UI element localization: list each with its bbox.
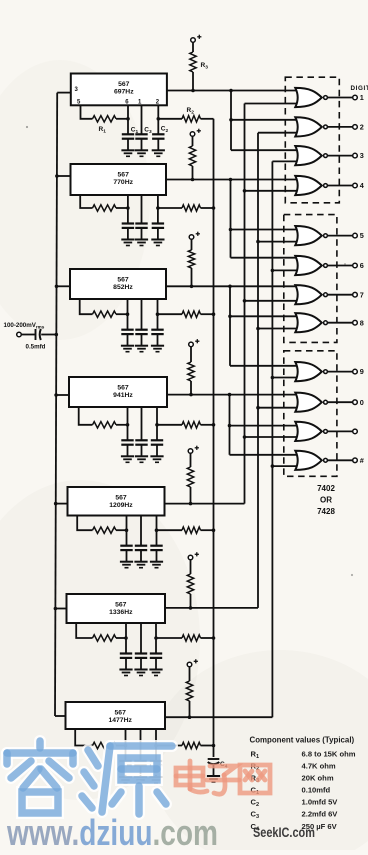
nor gate G7 — [295, 285, 322, 304]
supply + pullup resistor stage 1 — [191, 38, 196, 43]
wire R1 to pin 6 stage 6 — [116, 637, 126, 639]
input terminal — [17, 332, 22, 337]
output terminal digit 2 — [353, 125, 358, 130]
wire pin 2 stub stage 1 — [157, 105, 159, 119]
output terminal digit 7 — [353, 292, 358, 297]
wire gate G4 output to terminal — [327, 185, 352, 187]
wire pin 5 stub stage 5 — [77, 516, 92, 531]
wire: 1477Hz tap to gate input — [272, 269, 296, 271]
tone decoder IC U6 567 1336Hz — [67, 594, 166, 623]
resistor R1 timing stage 1 — [93, 116, 117, 122]
capacitor C3 pin1 stage 1 with ground — [141, 105, 143, 134]
resistor 4.7K pin2 feed stage 7 — [156, 745, 182, 747]
svg-text:#: # — [360, 456, 364, 465]
wire: 1336Hz top tap to gate input — [258, 132, 297, 134]
wire pin 2 stub stage 5 — [156, 516, 158, 531]
capacitor C1 timing stage 7 with ground — [125, 746, 127, 762]
wire: input signal bus to pin 3 of all 567s — [55, 93, 57, 716]
nor gate G2 — [295, 117, 322, 136]
wire gate G12 output to terminal — [327, 459, 352, 461]
output terminal digit * — [353, 429, 358, 434]
wire: 852Hz end tap to gate input — [230, 365, 297, 367]
wire pin 3 of U2 567 770Hz — [57, 175, 71, 177]
nor gate G1 — [295, 88, 322, 107]
resistor R1 timing stage 2 — [93, 205, 117, 211]
wire: 941Hz tap to gate input — [230, 425, 297, 427]
wire: 1336Hz tap to gate input — [258, 407, 297, 409]
capacitor C2 pin2 stage 5 with ground — [156, 530, 158, 546]
svg-text:7: 7 — [360, 290, 364, 299]
svg-text:OR: OR — [320, 496, 332, 505]
wire gate G11 output to terminal — [327, 430, 352, 432]
svg-text:567: 567 — [115, 495, 127, 502]
output terminal digit 9 — [353, 369, 358, 374]
capacitor C1 timing stage 4 with ground — [127, 425, 129, 441]
output terminal digit 3 — [353, 153, 358, 158]
wire pin 5 stub stage 2 — [80, 195, 92, 208]
capacitor C3 pin1 stage 6 with ground — [140, 623, 142, 654]
resistor 4.7K pin2 feed stage 2 — [158, 207, 182, 209]
capacitor C1 timing stage 1 with ground — [127, 119, 129, 135]
wire: 941Hz output line to gate row (node) — [167, 394, 297, 396]
wire: 1209Hz riser bus — [244, 104, 246, 504]
wire: 1336Hz tap to gate input — [258, 241, 297, 243]
resistor 4.7K pin2 feed stage 5 — [157, 529, 183, 531]
svg-text:0.5mfd: 0.5mfd — [26, 344, 46, 351]
wire pin 5 stub stage 3 — [80, 299, 93, 314]
svg-text:1336Hz: 1336Hz — [109, 609, 133, 616]
capacitor C2 pin2 stage 3 with ground — [157, 314, 159, 330]
capacitor C1 timing stage 3 with ground — [127, 314, 129, 330]
wire R1 to pin 6 stage 4 — [116, 424, 128, 426]
capacitor C3 pin1 stage 4 with ground — [141, 407, 143, 440]
capacitor 0.5mfd input coupling — [35, 329, 37, 340]
tone decoder IC U3 567 852Hz — [70, 269, 166, 299]
wire gate G1 output to terminal — [327, 97, 352, 99]
svg-text:SeekIC.com: SeekIC.com — [253, 825, 315, 840]
capacitor C3 pin1 stage 5 with ground — [140, 516, 142, 546]
wire: 1336Hz output line to riser bus — [165, 607, 258, 609]
supply + pullup resistor stage 7 — [187, 662, 192, 667]
svg-text:Component values (Typical): Component values (Typical) — [250, 736, 355, 745]
capacitor C1 timing stage 6 with ground — [125, 638, 127, 654]
resistor R1 timing stage 6 — [93, 635, 117, 641]
wire: 1209Hz tap to gate input — [245, 436, 297, 438]
wire: 941Hz end tap to gate input — [230, 454, 297, 456]
wire: 1209Hz tap to gate input — [245, 190, 297, 192]
resistor R1 timing stage 5 — [93, 527, 117, 533]
wire: 1477Hz top tap to gate input — [272, 160, 296, 162]
wire: 1477Hz tap to gate input — [272, 377, 296, 379]
svg-text:0.10mfd: 0.10mfd — [302, 786, 331, 795]
capacitor C1 timing stage 5 with ground — [126, 530, 128, 546]
wire gate G5 output to terminal — [327, 235, 352, 237]
svg-text:4.7K ohm: 4.7K ohm — [302, 762, 336, 771]
svg-text:697Hz: 697Hz — [114, 88, 134, 95]
wire pin 2 stub stage 7 — [155, 729, 157, 746]
wire: 1336Hz riser bus — [257, 133, 259, 608]
capacitor C3 pin1 stage 2 with ground — [141, 195, 143, 224]
wire pin 2 stub stage 2 — [157, 195, 159, 208]
output terminal digit 4 — [353, 183, 358, 188]
resistor R1 timing stage 3 — [93, 311, 117, 317]
tone decoder IC U5 567 1209Hz — [68, 487, 165, 516]
watermark pink char zi — [210, 766, 236, 775]
wire R1 to pin 6 stage 1 — [116, 118, 128, 120]
capacitor C2 pin2 stage 4 with ground — [156, 425, 158, 441]
svg-text:852Hz: 852Hz — [113, 284, 133, 291]
dashed frame: NOR gate package 2 (digits 5-8) — [284, 215, 337, 343]
svg-text:20K ohm: 20K ohm — [302, 774, 334, 783]
svg-text:3: 3 — [360, 151, 364, 160]
wire: 1209Hz tap to gate input — [245, 300, 297, 302]
wire: 852Hz tap to gate input — [230, 315, 297, 317]
wire: 697Hz branch bus down — [230, 91, 232, 151]
output terminal digit 0 — [353, 400, 358, 405]
capacitor C4 with ground — [208, 758, 220, 760]
svg-text:1209Hz: 1209Hz — [109, 502, 133, 509]
svg-text:1.0mfd 5V: 1.0mfd 5V — [302, 798, 339, 807]
svg-text:941Hz: 941Hz — [113, 392, 133, 399]
capacitor C3 pin1 stage 7 with ground — [140, 729, 142, 761]
wire: 770Hz branch bus down — [230, 180, 232, 258]
dashed frame: NOR gate package 3 (digits 9-#) — [284, 351, 337, 477]
wire: 770Hz output line to gate row (node) — [166, 179, 297, 181]
wire: 770Hz end tap to gate input — [231, 257, 297, 259]
wire pin 3 of U3 567 852Hz — [57, 285, 71, 287]
watermark blue char yuan — [88, 750, 98, 766]
wire: 697Hz tap to gate input — [231, 119, 297, 121]
svg-text:567: 567 — [118, 81, 130, 88]
nor gate G3 — [295, 146, 322, 165]
wire: 852Hz branch bus down — [229, 286, 231, 366]
wire R1 to pin 6 stage 5 — [116, 529, 127, 531]
supply + pullup resistor stage 5 — [188, 449, 193, 454]
nor gate G11 — [295, 422, 322, 441]
svg-text:567: 567 — [115, 602, 127, 609]
resistor 4.7K pin2 feed stage 1 — [158, 118, 182, 120]
capacitor C3 pin1 stage 3 with ground — [141, 299, 143, 330]
wire: 697Hz output line to gate row (node) — [167, 90, 297, 92]
output terminal digit 6 — [353, 263, 358, 268]
wire pin 5 stub stage 4 — [79, 407, 93, 425]
nor gate G8 — [295, 313, 322, 332]
tone decoder IC U1 567 697Hz — [71, 74, 167, 106]
resistor R1 timing stage 7 — [93, 742, 117, 748]
watermark pink char dian — [188, 761, 193, 789]
output terminal digit 5 — [353, 233, 358, 238]
wire pin 3 of U5 567 1209Hz — [56, 503, 68, 505]
svg-text:1477Hz: 1477Hz — [108, 717, 132, 724]
wire cap to input bus — [41, 334, 56, 336]
resistor 4.7K pin2 feed stage 4 — [157, 424, 182, 426]
wire: 697Hz end tap to gate input — [231, 149, 297, 151]
wire pin 3 of U4 567 941Hz — [56, 394, 69, 396]
wire gate G2 output to terminal — [327, 126, 352, 128]
nor gate G5 — [295, 226, 322, 245]
wire R1 to pin 6 stage 7 — [116, 745, 126, 747]
wire gate G9 output to terminal — [327, 371, 352, 373]
svg-text:2.2mfd 6V: 2.2mfd 6V — [302, 810, 339, 819]
wire pin 3 of U1 567 697Hz — [57, 92, 71, 94]
svg-text:7402: 7402 — [317, 484, 335, 493]
wire gate G7 output to terminal — [327, 294, 352, 296]
wire pin 2 stub stage 4 — [156, 407, 158, 425]
svg-text:0: 0 — [360, 398, 364, 407]
watermark pink char wang — [240, 765, 270, 793]
capacitor C2 pin2 stage 6 with ground — [155, 638, 157, 654]
nor gate G10 — [295, 393, 322, 412]
svg-text:5: 5 — [360, 231, 364, 240]
supply + pullup resistor stage 6 — [188, 555, 193, 560]
nor gate G9 — [295, 362, 322, 381]
capacitor C2 pin2 stage 1 with ground — [157, 119, 159, 135]
wire: 941Hz branch bus down — [229, 395, 231, 455]
dashed frame: NOR gate package 1 (digits 1-4) — [285, 77, 339, 203]
svg-text:7428: 7428 — [317, 507, 335, 516]
wire gate G3 output to terminal — [327, 155, 352, 157]
nor gate G12 — [295, 451, 322, 470]
nor gate G4 — [295, 176, 322, 195]
wire pin 5 stub stage 1 — [81, 105, 93, 119]
output terminal digit 1 — [353, 95, 358, 100]
tone decoder IC U4 567 941Hz — [69, 377, 167, 407]
capacitor C2 pin2 stage 7 with ground — [155, 746, 157, 762]
svg-text:6: 6 — [360, 261, 364, 270]
resistor R1 timing stage 4 — [93, 422, 117, 428]
tone decoder IC U2 567 770Hz — [71, 164, 167, 195]
watermark blue char rong — [34, 741, 46, 748]
wire: 1336Hz tap to gate input — [258, 328, 297, 330]
svg-text:567: 567 — [115, 710, 127, 717]
wire: 1477Hz tap to gate input — [272, 465, 296, 467]
wire pin 5 stub stage 6 — [76, 623, 92, 638]
capacitor C1 timing stage 2 with ground — [127, 208, 129, 224]
resistor 4.7K pin2 feed stage 3 — [158, 313, 183, 315]
svg-text:567: 567 — [118, 172, 130, 179]
wire: 852Hz output line to gate row (node) — [166, 285, 297, 287]
output terminal digit # — [353, 458, 358, 463]
wire: pin2 common bus to C4 — [213, 119, 215, 757]
wire: 1477Hz riser bus — [271, 161, 273, 717]
svg-text:www.dziuu.com: www.dziuu.com — [6, 813, 218, 850]
svg-text:2: 2 — [360, 123, 364, 132]
supply + pullup resistor stage 3 — [189, 235, 194, 240]
component values table — [250, 736, 356, 833]
watermark www.dziuu.com — [6, 813, 218, 853]
wire gate G6 output to terminal — [327, 265, 352, 267]
wire R1 to pin 6 stage 2 — [116, 207, 128, 209]
svg-text:770Hz: 770Hz — [113, 179, 133, 186]
wire input to coupling cap — [21, 334, 35, 336]
wire gate G8 output to terminal — [327, 322, 352, 324]
svg-text:567: 567 — [117, 277, 129, 284]
wire: 770Hz tap to gate input — [231, 229, 297, 231]
wire pin 2 stub stage 3 — [157, 299, 159, 314]
wire R1 to pin 6 stage 3 — [116, 313, 128, 315]
wire pin 2 stub stage 6 — [155, 623, 157, 638]
wire pin 3 of U7 567 1477Hz — [55, 715, 66, 717]
watermark SeekIC.com — [253, 825, 315, 840]
supply + pullup resistor stage 4 — [189, 342, 194, 347]
svg-text:8: 8 — [360, 318, 364, 327]
wire pin 3 of U6 567 1336Hz — [55, 608, 66, 610]
svg-text:6.8 to 15K ohm: 6.8 to 15K ohm — [302, 750, 356, 759]
supply + pullup resistor stage 2 — [190, 132, 195, 137]
wire: 1209Hz output line to riser bus — [165, 503, 245, 505]
capacitor C2 pin2 stage 2 with ground — [157, 208, 159, 224]
resistor 4.7K pin2 feed stage 6 — [156, 637, 182, 639]
wire: 1477Hz output line to riser bus — [165, 716, 272, 718]
svg-text:1: 1 — [360, 93, 364, 102]
nor gate G6 — [295, 256, 322, 275]
tone decoder IC U7 567 1477Hz — [66, 702, 166, 729]
output terminal digit 8 — [353, 320, 358, 325]
svg-text:DIGIT: DIGIT — [351, 85, 368, 92]
wire gate G10 output to terminal — [327, 401, 352, 403]
svg-text:567: 567 — [117, 385, 129, 392]
wire pin 5 stub stage 7 — [75, 729, 92, 746]
wire: 1209Hz top tap to gate input — [245, 103, 297, 105]
svg-text:9: 9 — [360, 367, 364, 376]
